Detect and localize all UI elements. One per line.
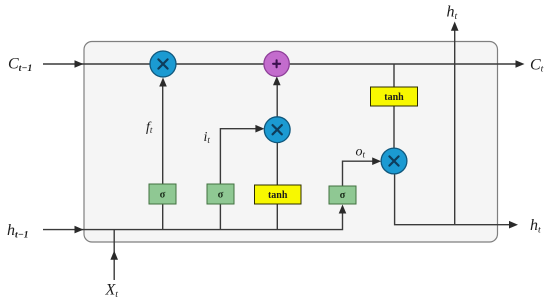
arrowhead into mult2: [255, 125, 264, 133]
arrowhead C_t output: [516, 60, 525, 68]
wire: tanh (bottom) to mult2: [276, 142, 278, 185]
arrowhead into cell (h line): [75, 226, 84, 234]
wire: branch up to sigma2: [219, 204, 221, 230]
svg-text:Ct: Ct: [530, 56, 544, 74]
wire: h_{t-1} bottom line into sigma3: [43, 210, 343, 230]
wire: C_{t-1} to C_t main top line: [43, 63, 517, 65]
arrowhead h_t top: [451, 22, 459, 31]
multiply node 1 (forget gate x): [150, 51, 176, 77]
svg-text:ht: ht: [530, 217, 541, 235]
tanh box (top): [371, 87, 418, 106]
arrowhead into mult1: [159, 78, 167, 87]
svg-text:tanh: tanh: [384, 92, 404, 103]
wire: i_t sigma2 to mult2: [220, 129, 258, 184]
arrowhead into cell (C line): [75, 60, 84, 68]
wire: X_t input: [113, 230, 115, 280]
svg-text:ht−1: ht−1: [7, 222, 29, 240]
arrowhead into plus: [273, 76, 281, 85]
wire: o_t sigma3 to mult3: [343, 161, 375, 186]
LSTM cell body: [84, 42, 498, 243]
multiply node 3 (output gate x): [381, 148, 407, 174]
svg-text:σ: σ: [160, 190, 166, 201]
multiply node 2 (input gate x): [264, 117, 290, 143]
svg-text:Xt: Xt: [105, 282, 119, 300]
tanh box (bottom): [255, 185, 302, 204]
arrowhead h_t output: [509, 221, 518, 229]
wire: h_t branch up to top: [454, 30, 456, 225]
svg-text:tanh: tanh: [268, 190, 288, 201]
sigma gate 2 (input): [207, 184, 234, 204]
wire: f_t sigma1 to mult1: [162, 82, 164, 184]
svg-text:σ: σ: [340, 190, 346, 201]
sigma gate 3 (output): [329, 186, 356, 204]
plus node (cell state add): [264, 51, 289, 76]
arrowhead X_t: [110, 251, 118, 260]
wire: branch up to sigma1: [162, 204, 164, 230]
arrowhead into sigma3: [339, 205, 347, 214]
wire: mult3 down then right to h_t output: [395, 173, 511, 225]
sigma gate 1 (forget): [149, 184, 176, 204]
arrowhead into mult3 left: [372, 157, 381, 165]
svg-text:ht: ht: [447, 4, 458, 22]
wire: tanh (top) to mult3: [393, 106, 395, 153]
wire: branch up to tanh (bottom): [276, 204, 278, 230]
wire: mult2 to plus: [276, 82, 278, 117]
wire: C line branch down into tanh (top): [393, 64, 395, 87]
svg-text:σ: σ: [218, 190, 224, 201]
svg-text:Ct−1: Ct−1: [8, 56, 32, 74]
arrowhead into mult3 top: [390, 148, 398, 157]
